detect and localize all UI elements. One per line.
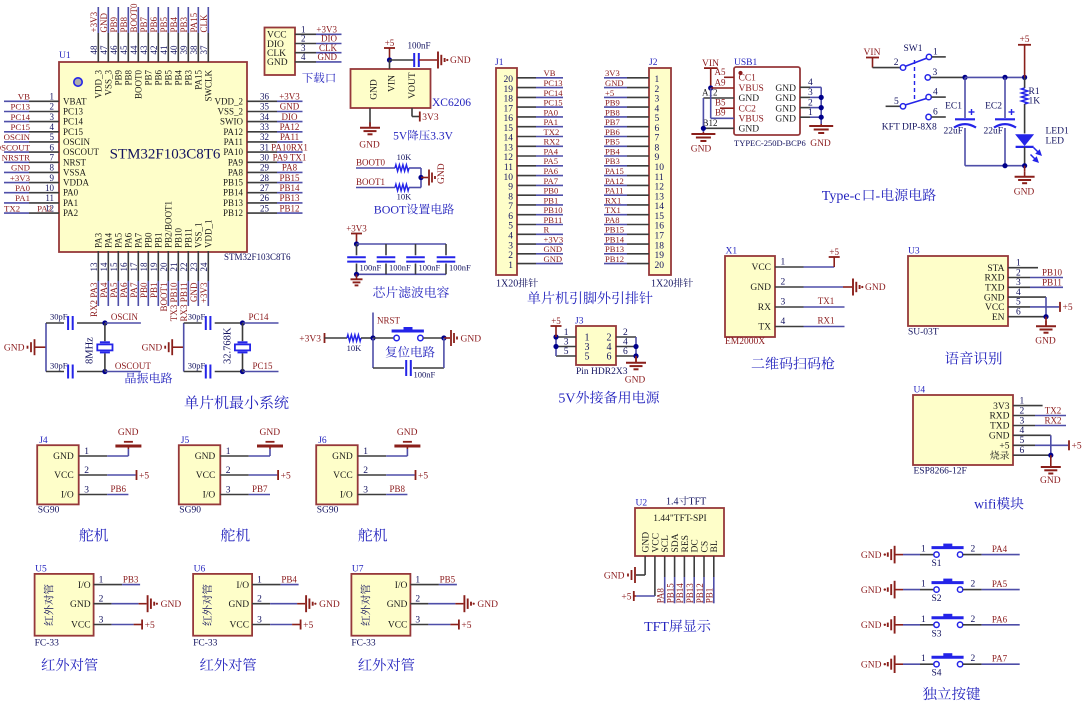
J2 pin 11 wire net PA15 [604,166,664,183]
wire S1 pin1 [903,545,934,555]
svg-text:DC: DC [691,539,701,552]
svg-text:PB14: PB14 [279,183,300,193]
svg-text:37: 37 [199,45,209,55]
J2 pin 17 wire net PB15 [604,225,664,242]
svg-text:VSS_3: VSS_3 [104,70,114,96]
svg-text:PC14: PC14 [63,117,84,127]
title IR pair U5 [42,658,98,671]
J1 pin 15 wire net PA1 [504,117,564,134]
title crystal circuit [126,372,173,383]
svg-text:PB5: PB5 [159,16,169,32]
svg-text:U4: U4 [914,386,926,396]
module U2 1.44 TFT SPI display [635,496,724,556]
svg-text:PB12: PB12 [695,583,705,603]
svg-text:I/O: I/O [340,491,353,501]
svg-text:VCC: VCC [196,471,216,481]
net label BOOT0 [356,158,395,169]
svg-text:GND: GND [319,600,340,610]
svg-text:39: 39 [179,45,189,55]
mcu U1 STM32F103C8T6 [59,51,247,252]
J2 pin 15 wire net TX1 [604,205,664,222]
U2 pin 6 wire net PB13 [685,556,695,603]
download port pin 2 wire net DIO [295,34,342,44]
svg-text:PA11: PA11 [605,186,623,196]
ground above J6 [394,428,420,449]
svg-text:1: 1 [921,615,926,625]
ground at USB left [691,132,716,155]
svg-text:Pin HDR2X3: Pin HDR2X3 [576,367,628,377]
wire net OSCIN at U1.5 [4,132,31,142]
svg-text:30pF: 30pF [188,360,206,370]
U1 right pin 35 VSS_2 [217,102,277,117]
svg-text:9: 9 [655,153,660,163]
svg-text:4: 4 [655,104,660,114]
svg-text:EC2: EC2 [985,102,1002,112]
svg-text:5: 5 [50,132,55,142]
svg-text:PB12: PB12 [279,203,299,213]
svg-text:22uF: 22uF [983,126,1003,136]
svg-text:PA12: PA12 [280,122,300,132]
svg-text:U1: U1 [59,51,71,61]
title independent buttons [923,687,980,700]
svg-text:5: 5 [508,222,513,232]
U3 pin5 VCC wire to +5 [1008,302,1073,313]
svg-text:GND: GND [861,661,882,671]
svg-text:VDD_3: VDD_3 [94,70,104,99]
wire net PB1 at U1.19 [149,281,159,306]
J1 pin 17 wire net PC15 [504,98,564,115]
connector download port (SWD) [265,28,296,76]
svg-text:GND: GND [775,84,796,94]
svg-text:GND: GND [359,141,380,151]
wire net PA11 at U1.32 [277,132,303,142]
svg-text:6: 6 [933,108,938,118]
svg-text:PB0: PB0 [544,186,559,196]
svg-text:3: 3 [508,241,513,251]
svg-text:GND: GND [318,52,338,62]
svg-text:PB11: PB11 [544,215,563,225]
U1 right pin 27 PB14 [223,183,277,198]
ground at U2 [604,567,635,583]
U1 top pin 43 PB7 [139,33,154,86]
svg-text:1: 1 [921,580,926,590]
J1 pin 6 wire net PB10 [508,205,563,222]
U3 pin1 STA wire [1008,267,1038,269]
connector J4 SG90 servo [37,436,78,504]
svg-text:1: 1 [564,328,569,338]
svg-text:2: 2 [894,58,899,68]
svg-text:I/O: I/O [78,581,91,591]
svg-text:XC6206: XC6206 [432,97,471,109]
svg-text:PA4: PA4 [992,544,1008,554]
wire net PA0 at U1.10 [4,183,31,193]
svg-text:+5: +5 [1063,303,1073,313]
svg-text:32.768K: 32.768K [222,327,233,364]
svg-text:1.44"TFT-SPI: 1.44"TFT-SPI [653,514,706,524]
svg-text:EM2000X: EM2000X [725,337,765,347]
junction NRST [370,335,375,340]
svg-text:PB6: PB6 [149,16,159,32]
svg-text:PB15: PB15 [223,178,244,188]
wire net PB8 at U1.45 [119,7,129,33]
svg-text:PA7: PA7 [544,176,559,186]
svg-text:SWCLK: SWCLK [204,69,214,101]
svg-text:PB14: PB14 [675,583,685,604]
U4 pin1 3V3 wire [1013,405,1043,407]
svg-text:22uF: 22uF [943,126,963,136]
svg-text:KFT DIP-8X8: KFT DIP-8X8 [882,123,937,133]
svg-text:PB4: PB4 [605,146,621,156]
svg-text:GND: GND [189,282,199,302]
USB1 pin B12 GND wire [701,98,734,132]
J2 pin 3 wire net +5 [604,88,660,105]
resistor R1 1K [1021,77,1040,133]
J2 pin 12 wire net PA12 [604,176,664,193]
svg-text:GND: GND [332,452,353,462]
U1 left pin 12 PA2 [29,203,78,218]
wire net PB9 at U1.46 [109,7,119,33]
U1 top pin 48 VDD_3 [89,33,104,99]
J1 pin 20 wire net VB [504,68,564,85]
svg-text:GND: GND [53,452,74,462]
svg-text:PC14: PC14 [544,88,564,98]
svg-text:5: 5 [564,347,569,357]
svg-text:PA8: PA8 [656,588,666,604]
module U5 FC-33 IR sensor [35,565,94,636]
svg-text:PB1: PB1 [705,588,715,604]
wire net PC14 at U1.3 [4,112,31,122]
svg-text:VOUT: VOUT [408,72,418,99]
USB1 pin B5 CC2 wire [715,98,734,109]
title reset circuit [386,346,435,357]
svg-text:PB3: PB3 [123,574,139,584]
svg-text:100nF: 100nF [389,263,411,273]
svg-text:VBUS: VBUS [739,84,764,94]
svg-text:GND: GND [775,94,796,104]
svg-text:40: 40 [169,45,179,55]
svg-text:+5: +5 [418,471,428,481]
wire SW1 pin3 to +5 rail [962,75,1027,80]
svg-text:RES: RES [681,535,691,552]
svg-text:16: 16 [119,262,129,272]
U7 pin2 GND wire [410,595,498,613]
U1 left pin 7 NRST [29,153,87,168]
svg-text:TX2: TX2 [4,203,20,213]
svg-text:4: 4 [623,338,628,348]
U1 bottom pin 15 PA5 [109,232,124,281]
svg-text:28: 28 [260,173,270,183]
net label BOOT1 [356,177,395,188]
switch SW1 KFT DIP-8X8 [882,44,965,133]
svg-text:PB6: PB6 [110,484,126,494]
svg-text:Type-c: Type-c [822,189,861,204]
svg-text:30pF: 30pF [50,312,68,322]
U1 left pin 3 PC14 [29,112,84,127]
svg-text:VDD_1: VDD_1 [204,220,214,249]
svg-text:GND: GND [810,139,831,149]
svg-text:VCC: VCC [333,471,353,481]
wire USB right gnd rail [819,87,824,124]
svg-text:BOOT1: BOOT1 [159,283,169,312]
U1 left pin 2 PC13 [29,102,84,117]
svg-text:GND: GND [750,283,771,293]
svg-text:4: 4 [933,88,938,98]
ground at reset [441,330,481,346]
U1 left pin 4 PC15 [29,122,84,137]
svg-text:PB3: PB3 [184,70,194,86]
J1 pin 10 wire net PA6 [504,166,564,183]
svg-text:41: 41 [159,46,169,55]
capacitor 30pF bottom 8MHz [46,360,105,378]
svg-text:BOOT0: BOOT0 [356,158,385,168]
svg-text:4: 4 [301,52,306,62]
svg-text:NRST: NRST [377,316,401,326]
ground at crystal 32.768K [142,339,184,355]
svg-text:PC13: PC13 [63,107,84,117]
svg-text:GND: GND [142,343,163,353]
svg-text:VBAT: VBAT [63,96,87,106]
wire net NRSTR at U1.7 [2,153,30,163]
svg-text:GND: GND [11,163,30,173]
svg-text:PA2: PA2 [63,208,78,218]
wire BOOT0 resistor to junction [409,168,421,188]
svg-text:PA11: PA11 [224,137,243,147]
svg-text:15: 15 [504,124,514,134]
ground above J4 [115,428,141,449]
svg-text:14: 14 [504,134,514,144]
J2 pin 9 wire net PB4 [604,146,660,163]
svg-text:wifi: wifi [974,497,996,512]
title servo J5 [221,528,250,542]
svg-text:OSCIN: OSCIN [111,312,139,322]
svg-text:6: 6 [508,212,513,222]
svg-text:1: 1 [921,654,926,664]
connector J1 1x20 header [495,58,517,275]
connector J2 1x20 header [649,58,671,275]
svg-text:8: 8 [508,192,513,202]
J1 pin 18 wire net PC14 [504,88,564,105]
svg-text:VIN: VIN [388,75,398,92]
svg-text:PB5: PB5 [164,70,174,86]
svg-text:2: 2 [971,580,976,590]
svg-text:1X20: 1X20 [651,279,673,290]
wire net PA15 at U1.38 [189,7,199,33]
svg-text:47: 47 [99,45,109,55]
U4 pin3 TXD wire net RX2 [1013,416,1066,426]
J3 right pin 4 wire [616,338,636,348]
svg-text:LED: LED [1046,137,1065,147]
svg-text:DIO: DIO [282,112,298,122]
svg-text:20: 20 [159,262,169,272]
svg-text:30pF: 30pF [50,360,68,370]
svg-text:STM32F103C8T6: STM32F103C8T6 [110,147,221,163]
resistor 10K reset [347,335,373,353]
svg-text:GND: GND [370,79,380,100]
svg-text:GND: GND [604,571,625,581]
svg-text:BOOT1: BOOT1 [356,177,385,187]
svg-text:I/O: I/O [203,491,216,501]
power 3V3 at regulator output [419,112,421,122]
svg-text:PA7: PA7 [134,232,144,248]
svg-text:3: 3 [564,338,569,348]
svg-text:+3V3: +3V3 [544,235,564,245]
U3 pin3 TXD wire net PB11 [1008,277,1063,287]
U6 pin1 I/O wire net PB4 [252,574,299,585]
U1 right pin 25 PB12 [223,203,277,218]
J3 right pin 2 wire [616,328,636,338]
svg-text:GND: GND [437,163,447,184]
download port pin 4 wire net GND [295,52,342,62]
svg-text:23: 23 [189,262,199,272]
svg-text:19: 19 [149,262,159,272]
svg-text:U7: U7 [352,565,364,575]
ground at crystal 8MHz [4,339,46,355]
title IR pair U7 [358,658,414,671]
USB1 right pin 1 GND wire [800,108,821,118]
U2 VCC pin wire to +5 [621,556,655,602]
J1 pin 13 wire net RX2 [504,137,564,154]
svg-text:46: 46 [109,45,119,55]
svg-text:NRST: NRST [63,157,87,167]
wire net PB4 at U1.40 [169,7,179,33]
svg-text:S1: S1 [932,559,942,569]
svg-text:OSCIN: OSCIN [4,132,31,142]
svg-text:PB2/BOOT1: PB2/BOOT1 [164,201,174,248]
svg-text:FC-33: FC-33 [351,639,376,649]
svg-text:PC15: PC15 [63,127,84,137]
svg-text:R1: R1 [1029,87,1040,97]
U1 bottom pin 18 PB0 [139,232,154,281]
svg-text:PB5: PB5 [605,137,620,147]
J2 pin 4 wire net PB9 [604,98,660,115]
svg-text:100nF: 100nF [449,263,471,273]
svg-text:PB11: PB11 [1042,277,1062,287]
svg-text:PB13: PB13 [223,198,244,208]
svg-text:7: 7 [655,134,660,144]
U1 right pin 31 PA10 [223,142,277,157]
svg-text:PB14: PB14 [223,188,244,198]
U1 left pin 9 VDDA [29,173,89,188]
ground at BOOT divider [418,163,447,185]
regulator U XC6206 [351,69,472,109]
svg-text:PB1: PB1 [544,195,559,205]
svg-text:VCC: VCC [651,533,661,553]
svg-text:100nF: 100nF [360,263,382,273]
ground at S3 [861,616,903,634]
svg-text:GND: GND [739,94,760,104]
svg-text:1: 1 [50,92,55,102]
crystal 8MHz [85,323,113,372]
svg-text:PB8: PB8 [119,16,129,32]
J2 pin 7 wire net PB6 [604,127,660,144]
net label NRST [373,313,401,339]
svg-text:PA4: PA4 [104,232,114,248]
svg-text:30: 30 [260,153,270,163]
svg-text:10: 10 [504,173,514,183]
svg-text:GND: GND [775,115,796,125]
U1 bottom pin 14 PA4 [99,232,114,281]
svg-text:15: 15 [655,212,665,222]
svg-text:-: - [876,189,881,204]
svg-text:SG90: SG90 [317,506,339,516]
svg-text:GND: GND [118,428,139,438]
svg-text:PB7: PB7 [252,484,268,494]
svg-text:2: 2 [971,654,976,664]
svg-text:PB15: PB15 [279,173,300,183]
J4 pin2 VCC wire to +5 [79,466,150,481]
svg-text:GND: GND [229,600,250,610]
U4 pin4 GND wire [1013,435,1051,455]
capacitor 100nF at regulator [408,41,431,68]
svg-text:PB1: PB1 [154,232,164,248]
svg-text:VIN: VIN [864,48,881,58]
svg-text:U3: U3 [908,247,920,257]
svg-text:42: 42 [149,46,159,55]
J2 pin 10 wire net PB3 [604,156,664,173]
svg-text:3: 3 [50,112,55,122]
svg-text:PA15: PA15 [189,12,199,32]
wire net PA10RX1 at U1.31 [271,142,308,152]
svg-text:11: 11 [655,173,664,183]
power +5 at regulator input [384,38,395,60]
svg-text:PB4: PB4 [174,70,184,86]
svg-text:PA4: PA4 [99,282,109,298]
svg-text:GND: GND [195,452,216,462]
svg-text:S3: S3 [932,629,942,639]
wire net PB3 at U1.39 [179,7,189,33]
ground at regulator GND pin [359,108,380,151]
svg-text:43: 43 [139,45,149,55]
svg-text:PB7: PB7 [605,117,621,127]
U7 pin1 I/O wire net PB5 [410,574,457,585]
title chip filter capacitors [373,286,449,298]
J2 pin 16 wire net PA8 [604,215,664,232]
svg-text:17: 17 [504,104,514,114]
svg-text:TX2: TX2 [1045,406,1062,416]
J2 pin 14 wire net RX1 [604,195,664,212]
ground at regulator cap [419,52,471,69]
svg-text:32: 32 [260,132,269,142]
wire S4 pin1 [903,654,934,664]
module U6 FC-33 IR sensor [193,565,252,636]
svg-text:I/O: I/O [395,581,408,591]
J2 pin 18 wire net PB14 [604,235,664,252]
svg-text:PB6: PB6 [605,127,621,137]
J1 pin 19 wire net PC13 [504,78,564,95]
U5 pin2 GND wire [94,595,182,613]
svg-text:PA11: PA11 [280,132,299,142]
svg-text:2: 2 [971,545,976,555]
U4 pin5 +5 wire [1013,440,1082,451]
U1 right pin 26 PB13 [223,193,277,208]
svg-text:VSS_1: VSS_1 [194,222,204,248]
svg-text:J1: J1 [495,58,504,68]
svg-text:PB11: PB11 [184,228,194,248]
svg-text:PB0: PB0 [144,232,154,248]
svg-text:FC-33: FC-33 [193,639,218,649]
svg-text:PA7: PA7 [992,654,1008,664]
svg-text:8: 8 [50,163,55,173]
capacitor 100nF filter #3 [406,244,440,274]
ground at power circuit [1014,166,1035,198]
svg-text:2: 2 [781,278,786,288]
wire net PA6 at U1.16 [119,281,129,306]
node OSCIN [102,312,141,326]
svg-text:OSCOUT: OSCOUT [0,142,31,152]
svg-text:VB: VB [544,68,556,78]
svg-text:19: 19 [655,251,665,261]
svg-text:33: 33 [260,122,270,132]
